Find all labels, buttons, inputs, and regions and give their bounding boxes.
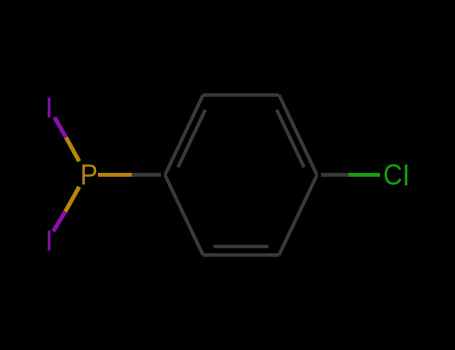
svg-text:P: P (80, 158, 97, 191)
bond P-C1: orange half (98, 173, 132, 177)
wire ring edge C3-C4 (279, 95, 317, 175)
benzene ring C1-C6 (165, 95, 317, 255)
svg-text:I: I (45, 93, 53, 125)
svg-text:I: I (45, 226, 53, 258)
bond P-I bottom: orange half (65, 187, 79, 212)
wire inner double bond C3=C4 (277, 110, 304, 168)
wire inner double bond C5=C6 (214, 245, 269, 249)
wire ring edge C6-C1 (165, 175, 203, 255)
bond P-I bottom: purple half (53, 212, 65, 232)
bond C4-Cl: green half (348, 173, 380, 177)
wire ring edge C4-C5 (279, 175, 317, 255)
bond P-I top: purple half (54, 117, 66, 137)
wire ring edge C5-C6 (203, 253, 279, 257)
wire ring edge C2-C3 (203, 93, 279, 97)
bond C4-Cl: gray half (321, 173, 348, 177)
wire ring edge C1-C2 (165, 95, 203, 175)
bond P-I top: orange half (66, 137, 79, 161)
svg-text:C: C (383, 159, 402, 191)
bond P-C1: gray half (132, 173, 161, 177)
svg-text:l: l (403, 161, 409, 193)
wire inner double bond C1=C2 (178, 110, 205, 168)
